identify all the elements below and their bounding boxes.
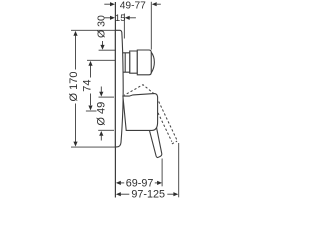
svg-text:49-77: 49-77: [120, 1, 146, 12]
svg-text:69-97: 69-97: [126, 177, 154, 189]
svg-text:97-125: 97-125: [131, 189, 165, 201]
svg-text:Ø 49: Ø 49: [95, 102, 107, 126]
svg-text:Ø 30: Ø 30: [96, 15, 108, 38]
svg-text:15: 15: [115, 13, 126, 24]
svg-text:Ø 170: Ø 170: [68, 72, 80, 102]
svg-text:74: 74: [82, 79, 94, 91]
